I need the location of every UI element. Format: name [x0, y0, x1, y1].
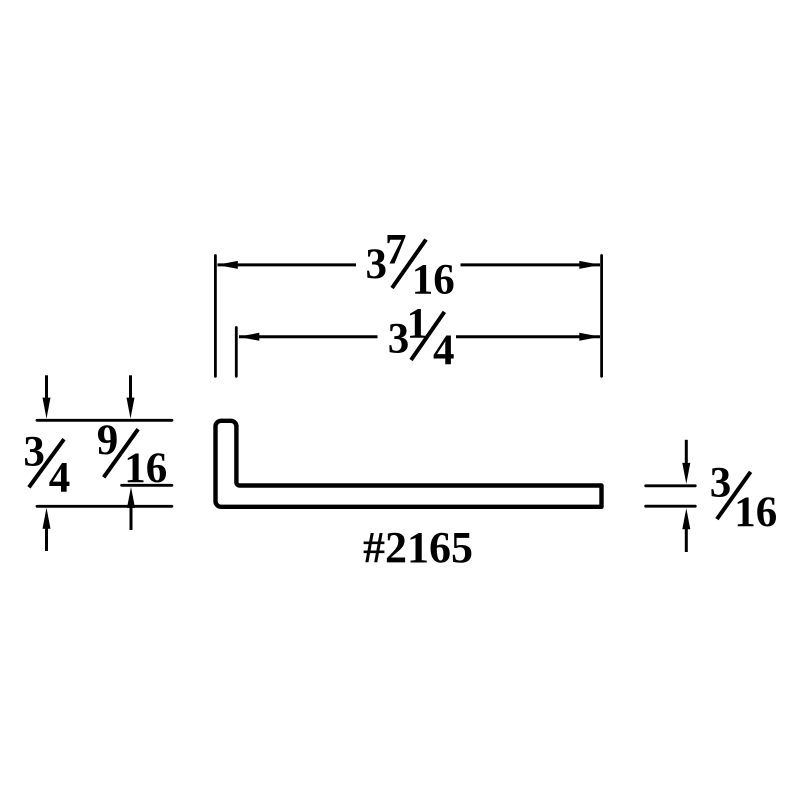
part number label #2165 — [363, 523, 473, 572]
svg-text:9: 9 — [97, 417, 119, 464]
svg-text:3: 3 — [366, 241, 388, 288]
svg-text:16: 16 — [734, 489, 777, 536]
extension line: top of right-side 3/16 dimension — [646, 484, 696, 487]
svg-text:16: 16 — [412, 257, 455, 304]
down arrow for 3/4 dimension — [43, 375, 51, 418]
dimension text 3 7/16 — [366, 227, 455, 304]
dimension text 3/16 — [710, 460, 778, 536]
svg-text:7: 7 — [385, 227, 407, 274]
up arrow for 3/16 dimension — [682, 508, 690, 552]
dimension text 3 1/4 — [388, 301, 455, 374]
svg-text:#2165: #2165 — [363, 523, 473, 572]
extension line: bottom of left-side height dimensions — [37, 505, 172, 508]
up arrow for 3/4 dimension — [43, 508, 51, 551]
extension line: bottom of right-side 3/16 dimension — [646, 505, 696, 508]
extension line: top of left-side height dimensions — [37, 419, 172, 422]
dimension line 3 7/16 with outward arrows — [217, 261, 601, 269]
L-profile outline #2165 — [216, 421, 602, 507]
svg-text:4: 4 — [433, 327, 455, 374]
up arrow for 9/16 dimension — [127, 487, 135, 530]
extension line: left of 3 1/4 dimension — [235, 328, 238, 377]
extension line: shared right of width dimensions — [600, 256, 603, 377]
svg-text:3: 3 — [710, 460, 732, 507]
dimension text 9/16 — [97, 417, 168, 492]
down arrow for 9/16 dimension — [127, 375, 135, 418]
extension line: left of 3 7/16 dimension — [214, 256, 217, 377]
extension line: middle (9/16) on left side — [122, 484, 172, 487]
dimension line 3 1/4 with outward arrows — [238, 333, 600, 341]
svg-text:4: 4 — [49, 454, 71, 501]
svg-text:16: 16 — [124, 445, 167, 492]
dimension text 3/4 — [23, 428, 70, 501]
down arrow for 3/16 dimension — [682, 440, 690, 484]
